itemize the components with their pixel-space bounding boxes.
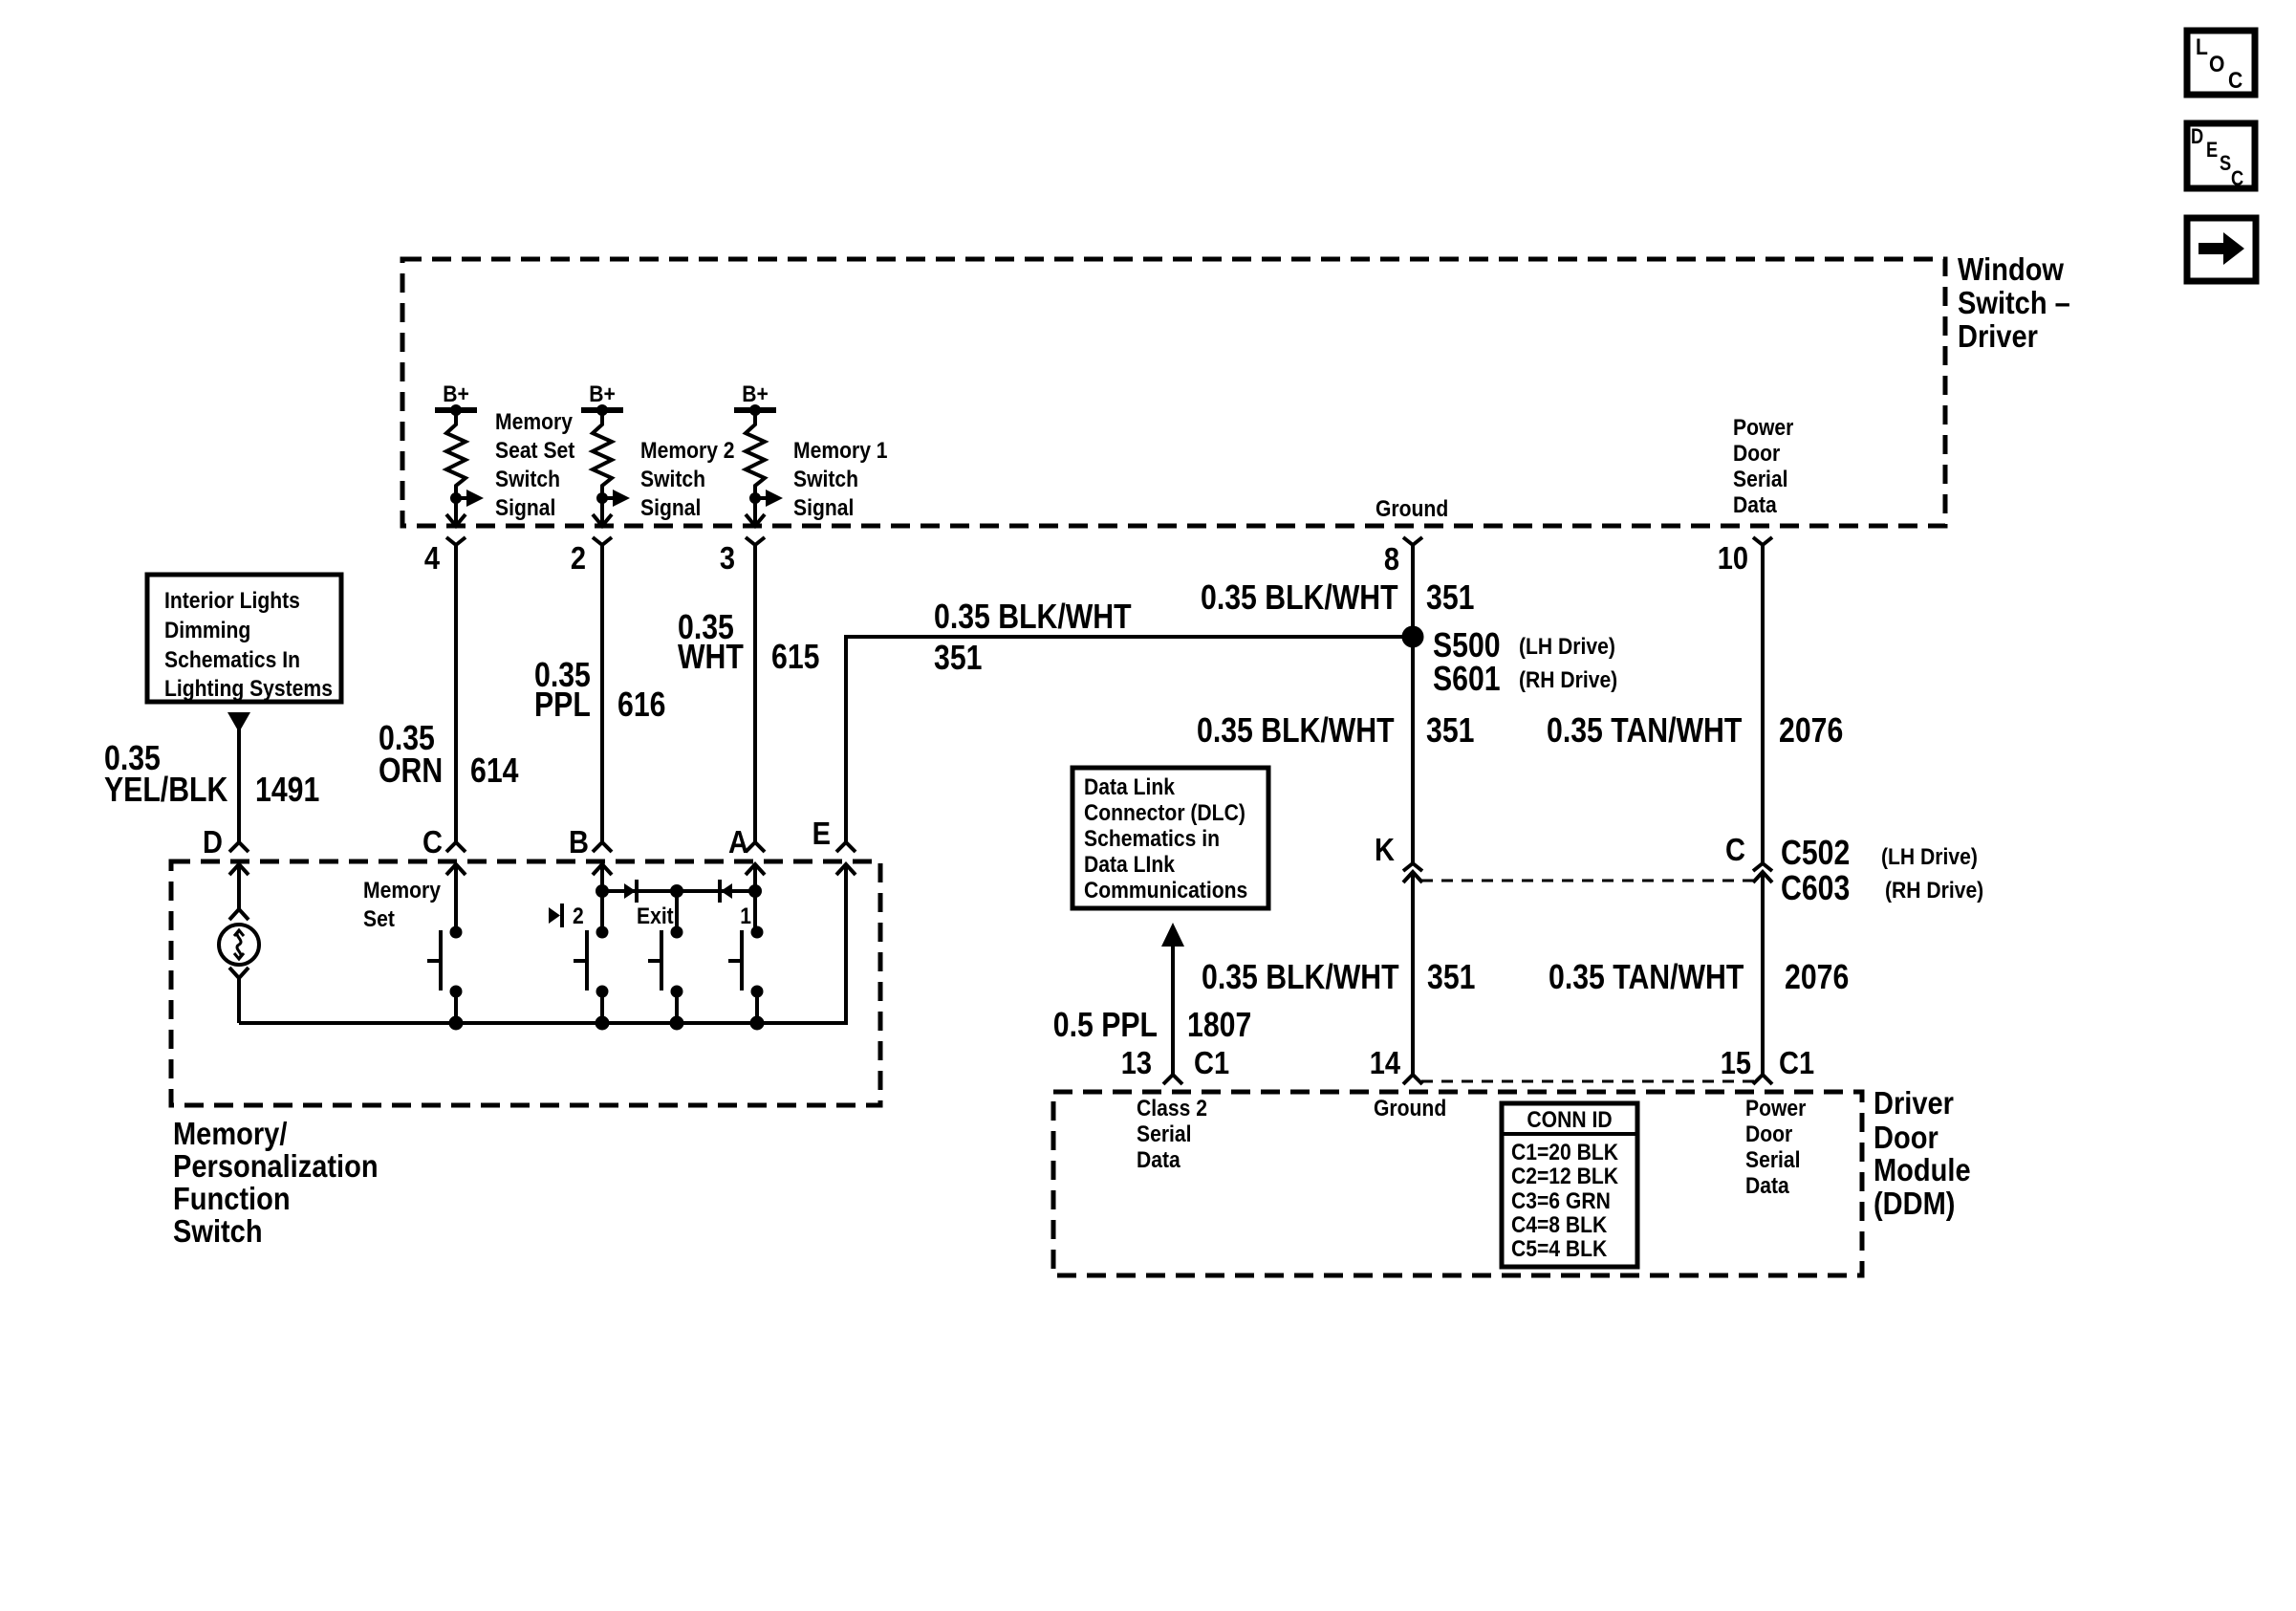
svg-text:Data: Data (1137, 1147, 1180, 1173)
connector B fork+arrow at memory box edge (593, 842, 612, 875)
label Window Switch - Driver (1958, 251, 2070, 354)
svg-text:Ground: Ground (1375, 496, 1448, 522)
label Power Door Serial Data (pin 10) (1733, 415, 1794, 518)
svg-text:Exit: Exit (637, 903, 674, 929)
svg-text:10: 10 (1718, 540, 1748, 576)
wire down to box edge pin 3 (753, 492, 757, 526)
svg-text:Signal: Signal (640, 495, 701, 521)
wire connector C down to memory set switch (454, 864, 458, 931)
svg-text:Seat Set: Seat Set (495, 438, 575, 464)
svg-text:Switch –: Switch – (1958, 285, 2070, 320)
wire down to box edge pin 4 (454, 492, 458, 526)
switch memory 1: blade (728, 930, 742, 991)
svg-text:Switch: Switch (793, 467, 858, 492)
svg-text:C5=4 BLK: C5=4 BLK (1511, 1236, 1608, 1262)
module box: Window Switch - Driver (dashed) (402, 259, 1945, 526)
svg-text:614: 614 (470, 752, 519, 791)
wire pin 8 to S500 (1411, 545, 1415, 637)
switch Exit: bottom contact + wire to bus (670, 986, 683, 1030)
svg-text:C603: C603 (1781, 870, 1850, 908)
svg-text:Serial: Serial (1137, 1121, 1192, 1147)
connector pin 4 fork (446, 537, 466, 545)
label S500 (LH Drive) (1433, 627, 1615, 665)
connector A fork+arrow at memory box edge (746, 842, 765, 875)
junction + signal tap arrow (pin 3 branch) (750, 490, 784, 507)
in-line connector dashed link 14-15 (1421, 1080, 1754, 1083)
switch memory 2: blade (574, 930, 587, 991)
B+ supply node (pin 2 branch) (581, 381, 623, 416)
svg-text:Function: Function (173, 1181, 291, 1216)
resistor (memory switch pull-up, pin 4 branch) (446, 410, 466, 496)
off-page arrow (to interior lights schematic) (227, 712, 250, 732)
junction + signal tap arrow (pin 4 branch) (451, 490, 485, 507)
diode icon + label 2 (549, 903, 584, 929)
wire pin 3 down to memory switch connector (753, 545, 757, 842)
wire pin 2 down to memory switch connector (600, 545, 604, 842)
switch memory 2: top contact (596, 926, 608, 938)
svg-text:Door: Door (1745, 1121, 1792, 1147)
connector C fork+arrow at memory box edge (446, 842, 466, 875)
switch memory 2: bottom contact + wire to bus (596, 986, 609, 1030)
label 0.35 BLK/WHT 351 (row 1) (1201, 579, 1474, 618)
label 0.35 PPL 616 (circuit to pin B) (534, 657, 665, 725)
svg-text:CONN ID: CONN ID (1527, 1107, 1612, 1133)
svg-text:C1=20 BLK: C1=20 BLK (1511, 1140, 1619, 1165)
svg-text:B+: B+ (742, 381, 769, 407)
svg-text:D: D (203, 824, 223, 860)
label 0.35 ORN 614 (circuit to pin C) (379, 720, 519, 791)
connector pin 3 fork (746, 537, 765, 545)
module box: Driver Door Module (DDM) (dashed) (1053, 1092, 1862, 1275)
connector pin 2 fork (593, 537, 612, 545)
svg-text:Driver: Driver (1874, 1085, 1954, 1121)
svg-text:351: 351 (1426, 579, 1474, 618)
in-line connector K (fork + arrow) (1403, 863, 1422, 882)
svg-text:ORN: ORN (379, 752, 443, 791)
wire D pin up to interior lights (237, 729, 241, 842)
wire D connector down to dimmer symbol (237, 864, 241, 909)
wire connector K down to pin 14 (1411, 872, 1415, 1075)
label 0.35 WHT 615 (circuit to pin A) (678, 609, 819, 677)
svg-text:Memory 2: Memory 2 (640, 438, 735, 464)
svg-text:Data LInk: Data LInk (1084, 852, 1175, 878)
label Memory Set (363, 878, 441, 932)
label C603 (RH Drive) (1781, 870, 1983, 908)
svg-text:Communications: Communications (1084, 878, 1247, 903)
in-line connector C (fork + arrow) (1753, 863, 1772, 882)
label 0.35 TAN/WHT 2076 (row 3) (1549, 959, 1849, 997)
svg-text:Switch: Switch (173, 1213, 263, 1249)
svg-text:Driver: Driver (1958, 318, 2038, 354)
svg-text:Connector (DLC): Connector (DLC) (1084, 800, 1245, 826)
svg-text:14: 14 (1370, 1045, 1401, 1080)
svg-text:S: S (2220, 153, 2231, 176)
svg-text:2: 2 (571, 540, 586, 576)
svg-text:Ground: Ground (1374, 1096, 1446, 1121)
svg-text:Data Link: Data Link (1084, 774, 1175, 800)
splice S500 / S601 junction (1402, 626, 1423, 647)
svg-text:Schematics in: Schematics in (1084, 826, 1220, 852)
svg-text:0.5 PPL: 0.5 PPL (1053, 1007, 1158, 1045)
svg-text:2076: 2076 (1779, 712, 1843, 751)
svg-text:D: D (2191, 126, 2203, 149)
svg-text:Class 2: Class 2 (1137, 1096, 1207, 1121)
svg-text:Data: Data (1745, 1173, 1789, 1199)
svg-text:B: B (569, 824, 589, 860)
resistor (memory switch pull-up, pin 3 branch) (746, 410, 765, 496)
svg-text:351: 351 (1426, 712, 1474, 751)
svg-text:Signal: Signal (495, 495, 555, 521)
label Power Door Serial Data (DDM pin 15) (1745, 1096, 1807, 1199)
svg-text:Door: Door (1874, 1120, 1939, 1155)
svg-text:0.35 BLK/WHT: 0.35 BLK/WHT (1197, 712, 1395, 751)
switch Memory Set: top contact (450, 926, 462, 938)
junction + signal tap arrow (pin 2 branch) (597, 490, 631, 507)
svg-text:1: 1 (740, 903, 751, 929)
svg-text:0.35 BLK/WHT: 0.35 BLK/WHT (934, 599, 1132, 637)
svg-text:Dimming: Dimming (164, 618, 250, 643)
label 0.35 YEL/BLK 1491 (104, 740, 319, 810)
connector E fork+arrow at memory box edge (836, 842, 856, 875)
wire diode bar down to exit switch (675, 891, 679, 931)
svg-text:351: 351 (934, 640, 982, 678)
svg-text:C: C (422, 824, 443, 860)
svg-text:WHT: WHT (678, 639, 744, 677)
svg-text:0.35 TAN/WHT: 0.35 TAN/WHT (1547, 712, 1742, 751)
svg-text:Personalization: Personalization (173, 1148, 379, 1184)
svg-text:Switch: Switch (495, 467, 560, 492)
svg-text:C: C (1725, 832, 1745, 867)
pin number 15 + C1 (1721, 1045, 1814, 1080)
wire down to box edge pin 2 (600, 492, 604, 526)
connector D fork+arrow at memory box edge (229, 842, 249, 875)
svg-text:Memory/: Memory/ (173, 1116, 288, 1151)
diode (anode B side, pointing right) (624, 880, 637, 903)
svg-text:Door: Door (1733, 441, 1780, 467)
svg-text:2: 2 (573, 903, 584, 929)
reference box: Interior Lights Dimming Schematics In Lighting Systems (147, 575, 341, 702)
svg-text:Interior Lights: Interior Lights (164, 588, 300, 614)
svg-text:C2=12 BLK: C2=12 BLK (1511, 1164, 1619, 1189)
svg-text:4: 4 (424, 540, 441, 576)
svg-text:(RH Drive): (RH Drive) (1519, 667, 1617, 693)
wire pin 4 down to memory switch connector (454, 545, 458, 842)
svg-text:L: L (2196, 34, 2208, 60)
switch Exit: top contact (671, 926, 682, 938)
wire connector B down through diode bar (600, 864, 604, 931)
wire connector C down to pin 15 (1761, 872, 1765, 1075)
svg-text:(LH Drive): (LH Drive) (1519, 634, 1615, 660)
label Class 2 Serial Data (1137, 1096, 1207, 1173)
module box: Memory/Personalization Function Switch (dashed) (171, 861, 880, 1105)
resistor (memory switch pull-up, pin 2 branch) (593, 410, 612, 496)
connector pin 8 fork (1403, 537, 1422, 545)
svg-text:PPL: PPL (534, 686, 591, 725)
svg-text:616: 616 (617, 686, 665, 725)
label 0.5 PPL 1807 (1053, 1007, 1251, 1045)
label Driver Door Module (DDM) (1874, 1085, 1971, 1221)
off-page arrow up to DLC box (1161, 923, 1184, 947)
wire dimmer to bus (237, 978, 241, 1023)
svg-text:Window: Window (1958, 251, 2065, 287)
svg-text:351: 351 (1427, 959, 1475, 997)
svg-text:Serial: Serial (1733, 467, 1788, 492)
svg-text:Switch: Switch (640, 467, 705, 492)
wire pin 10 down to connector C (1761, 545, 1765, 863)
common bus wire to E (239, 864, 846, 1023)
label S601 (RH Drive) (1433, 661, 1617, 699)
connector pin 10 fork (1753, 537, 1772, 545)
svg-text:Power: Power (1733, 415, 1794, 441)
svg-text:E: E (812, 816, 831, 851)
svg-text:Set: Set (363, 906, 395, 932)
dimmer/illumination symbol (circle with squiggle) (219, 909, 259, 978)
svg-text:Memory: Memory (495, 409, 573, 435)
svg-text:1807: 1807 (1187, 1007, 1251, 1045)
svg-text:Signal: Signal (793, 495, 854, 521)
wire connector A down through diode bar (753, 864, 757, 931)
legend hotlink arrow box (2187, 218, 2256, 281)
wire pin 13 up to DLC (1171, 947, 1175, 1075)
svg-text:C3=6 GRN: C3=6 GRN (1511, 1188, 1611, 1214)
svg-text:O: O (2209, 52, 2224, 77)
switch Memory Set: blade (427, 930, 441, 991)
connector pin 14 fork (1403, 1075, 1422, 1084)
wire S500 down to connector K (1411, 637, 1415, 863)
switch Exit: blade (648, 930, 661, 991)
svg-text:Module: Module (1874, 1152, 1971, 1187)
switch memory 1: top contact (751, 926, 763, 938)
svg-text:Lighting Systems: Lighting Systems (164, 676, 333, 702)
svg-text:C4=8 BLK: C4=8 BLK (1511, 1212, 1608, 1238)
switch Memory Set: bottom contact + wire to bus (449, 986, 463, 1030)
svg-text:YEL/BLK: YEL/BLK (104, 772, 227, 810)
label 0.35 TAN/WHT 2076 (row 2) (1547, 712, 1843, 751)
svg-text:Data: Data (1733, 492, 1777, 518)
label 0.35 BLK/WHT 351 (row 3) (1202, 959, 1475, 997)
label Memory/Personalization Function Switch (173, 1116, 379, 1249)
label Memory Seat Set Switch Signal (495, 409, 575, 521)
svg-text:615: 615 (771, 639, 819, 677)
connector pin 13 fork (1163, 1075, 1182, 1084)
legend DESC box (2187, 123, 2255, 190)
svg-text:B+: B+ (589, 381, 616, 407)
in-line connector dashed link K-C (1421, 880, 1754, 882)
label 0.35 BLK/WHT 351 (row 2) (1197, 712, 1474, 751)
svg-text:S601: S601 (1433, 661, 1501, 699)
svg-text:2076: 2076 (1785, 959, 1849, 997)
label Memory 1 Switch Signal (793, 438, 888, 521)
svg-text:(LH Drive): (LH Drive) (1881, 844, 1978, 870)
svg-text:Power: Power (1745, 1096, 1807, 1121)
svg-text:0.35 BLK/WHT: 0.35 BLK/WHT (1202, 959, 1399, 997)
svg-text:Serial: Serial (1745, 1147, 1801, 1173)
svg-text:K: K (1375, 832, 1395, 867)
svg-text:15: 15 (1721, 1045, 1751, 1080)
reference box: Data Link Connector (DLC) Schematics in Data Link Communications (1072, 768, 1268, 908)
B+ supply node (pin 3 branch) (734, 381, 776, 416)
svg-text:3: 3 (720, 540, 735, 576)
label C502 (LH Drive) (1781, 835, 1978, 873)
pin number 13 + C1 (1121, 1045, 1229, 1080)
svg-text:1491: 1491 (255, 772, 319, 810)
svg-text:B+: B+ (443, 381, 469, 407)
svg-text:C: C (2231, 168, 2244, 191)
svg-text:C502: C502 (1781, 835, 1850, 873)
B+ supply node (pin 4 branch) (435, 381, 477, 416)
CONN ID table (1502, 1103, 1637, 1267)
svg-text:8: 8 (1384, 541, 1399, 577)
connector pin 15 fork (1753, 1075, 1772, 1084)
svg-text:Memory: Memory (363, 878, 441, 903)
svg-text:C1: C1 (1194, 1045, 1229, 1080)
svg-text:A: A (728, 824, 748, 860)
svg-text:C: C (2228, 68, 2242, 94)
svg-text:0.35 TAN/WHT: 0.35 TAN/WHT (1549, 959, 1744, 997)
svg-text:Schematics In: Schematics In (164, 647, 300, 673)
svg-text:(DDM): (DDM) (1874, 1186, 1955, 1221)
svg-text:13: 13 (1121, 1045, 1152, 1080)
svg-text:0.35 BLK/WHT: 0.35 BLK/WHT (1201, 579, 1398, 618)
diode steering bar B-A (596, 885, 762, 898)
svg-text:(RH Drive): (RH Drive) (1885, 878, 1983, 903)
svg-text:Memory 1: Memory 1 (793, 438, 888, 464)
svg-text:E: E (2206, 140, 2218, 163)
svg-text:C1: C1 (1779, 1045, 1814, 1080)
legend LOC box (2187, 31, 2255, 95)
label Memory 2 Switch Signal (640, 438, 735, 521)
wire 0.35 BLK/WHT 351 from E to S500 (846, 637, 1413, 842)
switch memory 1: bottom contact + wire to bus (750, 986, 764, 1030)
diode (anode A side, pointing left) (720, 880, 732, 903)
